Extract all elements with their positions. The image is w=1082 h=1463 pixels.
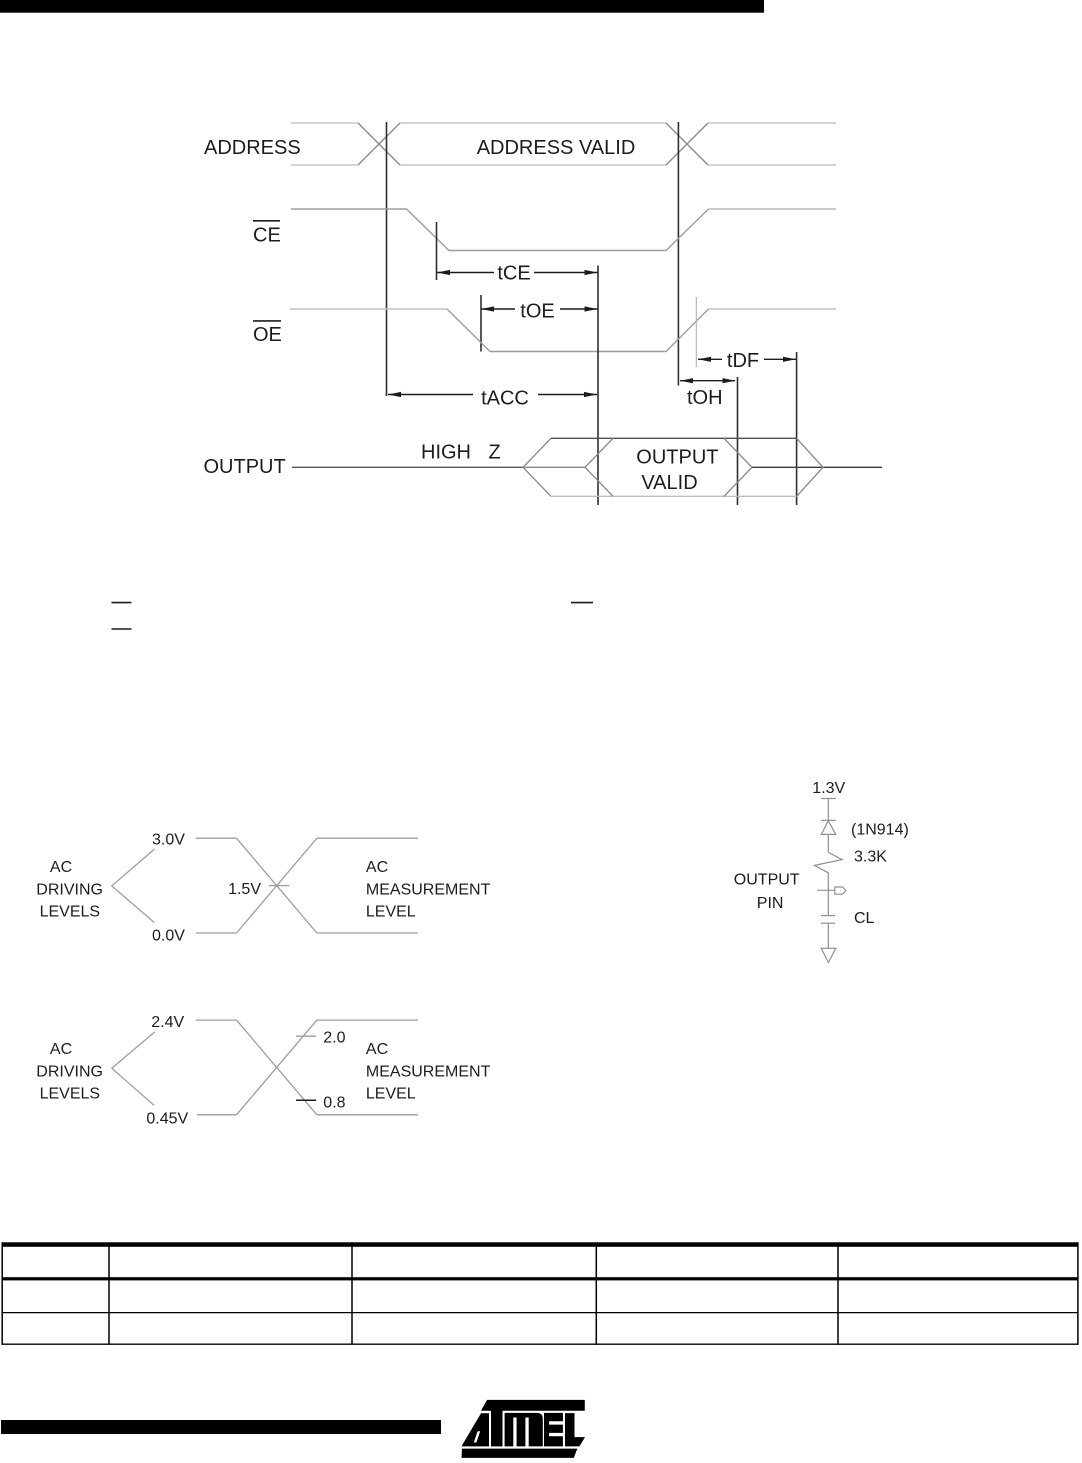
node OUTPUT PIN tag [835, 887, 846, 894]
svg-text:AC: AC [366, 859, 388, 876]
top rule bar [0, 0, 764, 13]
wire OUTPUT bus bottom rail [551, 495, 797, 497]
wire reference vertical at address-valid end [677, 122, 679, 386]
svg-text:MEASUREMENT: MEASUREMENT [366, 1063, 491, 1080]
svg-text:0.45V: 0.45V [146, 1110, 188, 1127]
table top thick border [2, 1242, 1079, 1247]
dimension tOH [680, 378, 736, 383]
table header separator [2, 1277, 1079, 1280]
node 0.8 measurement level tick [296, 1099, 316, 1101]
node 2.0 measurement level tick [296, 1035, 316, 1037]
wire OUTPUT VALID closing [724, 438, 752, 496]
wire tOH right vertical [737, 377, 739, 505]
svg-text:OUTPUT: OUTPUT [734, 872, 800, 889]
resistor R1 3.3K [814, 852, 842, 873]
wire crossing X (diagram 1) [237, 838, 317, 933]
svg-text:LEVELS: LEVELS [40, 1086, 100, 1103]
svg-text:tCE: tCE [497, 263, 530, 285]
wire capacitor to ground [827, 923, 829, 948]
wire OUTPUT bus top rail [551, 437, 797, 439]
AC measurement level label (diagram 1) [366, 859, 491, 921]
logo letter T stem [491, 1404, 503, 1446]
logo letter E [544, 1413, 563, 1447]
svg-text:CL: CL [854, 910, 875, 927]
AC measurement level label (diagram 2) [366, 1041, 491, 1103]
svg-text:ADDRESS: ADDRESS [204, 137, 301, 159]
wire OUTPUT high-Z center line [292, 466, 523, 468]
diode D1 (1N914) [821, 820, 836, 834]
svg-text:tACC: tACC [481, 388, 529, 410]
svg-text:MEASUREMENT: MEASUREMENT [366, 881, 491, 898]
svg-text:0.8: 0.8 [323, 1095, 345, 1112]
logo letter L [565, 1413, 585, 1446]
wire reference vertical at address-valid start [386, 122, 388, 396]
node CE label with overbar [253, 220, 280, 222]
wire AC drive fork (diagram 1) [112, 849, 155, 923]
svg-text:DRIVING: DRIVING [36, 1063, 103, 1080]
wire tCE/tOE/tACC right vertical [597, 266, 599, 506]
AC driving levels label (diagram 1) [36, 859, 103, 921]
supply terminal tick [821, 798, 836, 800]
svg-text:AC: AC [366, 1041, 388, 1058]
svg-text:CE: CE [253, 225, 281, 247]
svg-text:LEVEL: LEVEL [366, 1086, 416, 1103]
wire output rails (diagram 1) [317, 838, 418, 933]
svg-text:tOH: tOH [687, 387, 723, 409]
note overbar CE (note 1) [112, 602, 132, 604]
wire resistor to capacitor [827, 873, 829, 916]
wire ADDRESS bus transition X left [358, 123, 400, 165]
wire tCE left tick [436, 222, 438, 280]
svg-text:OE: OE [253, 324, 282, 346]
wire OUTPUT high-Z tail split [523, 438, 613, 496]
wire CE waveform [291, 209, 709, 251]
svg-text:3.3K: 3.3K [854, 849, 887, 866]
svg-text:ADDRESS VALID: ADDRESS VALID [477, 137, 636, 159]
capacitor CL [821, 916, 835, 924]
wire OUTPUT final closing [797, 438, 823, 496]
note overbar OE (note 2) [112, 628, 132, 630]
wire OUTPUT right center line [752, 466, 882, 468]
logo letter A [461, 1413, 489, 1446]
dimension tCE [437, 270, 598, 275]
wire AC drive fork (diagram 2) [112, 1032, 155, 1106]
table row separator [2, 1312, 1079, 1314]
svg-text:1.5V: 1.5V [228, 881, 261, 898]
svg-text:DRIVING: DRIVING [36, 881, 103, 898]
svg-text:LEVELS: LEVELS [40, 904, 100, 921]
wire OUTPUT bus opening [523, 438, 551, 496]
svg-text:HIGH: HIGH [421, 441, 471, 463]
footer rule bar [1, 1420, 441, 1434]
svg-text:2.0: 2.0 [323, 1030, 345, 1047]
table column lines [2, 1242, 1078, 1345]
svg-text:VALID: VALID [641, 472, 697, 494]
wire ADDRESS bus rails [291, 123, 836, 165]
svg-text:tOE: tOE [520, 301, 554, 323]
wire diode to resistor [827, 834, 829, 852]
wire tOE left tick [480, 295, 482, 352]
svg-text:2.4V: 2.4V [151, 1014, 184, 1031]
svg-text:OUTPUT: OUTPUT [204, 456, 286, 478]
wire OE waveform [290, 308, 447, 310]
svg-text:(1N914): (1N914) [851, 822, 909, 839]
svg-text:LEVEL: LEVEL [366, 904, 416, 921]
svg-text:0.0V: 0.0V [152, 928, 185, 945]
svg-text:1.3V: 1.3V [812, 780, 845, 797]
Atmel logo [461, 1400, 585, 1458]
wire output rails (diagram 2) [317, 1020, 418, 1115]
table bottom border [2, 1343, 1079, 1345]
node OUTPUT PIN tick [817, 889, 835, 891]
svg-text:tDF: tDF [727, 350, 759, 372]
wire tDF left tick [695, 297, 697, 367]
dimension tOE [481, 306, 598, 311]
svg-text:3.0V: 3.0V [152, 832, 185, 849]
wire ADDRESS bus transition X right [666, 123, 708, 165]
logo top bar [481, 1400, 585, 1411]
wire crossing X (diagram 2) [237, 1020, 317, 1115]
node OE label with overbar [253, 320, 281, 322]
svg-text:AC: AC [50, 1041, 72, 1058]
note overbar OE (note 1 right) [571, 602, 593, 604]
logo bottom bar [462, 1449, 578, 1458]
logo letter M [505, 1413, 543, 1447]
svg-text:Z: Z [489, 441, 501, 463]
dimension tACC [388, 392, 597, 397]
svg-text:AC: AC [50, 859, 72, 876]
wire tDF right vertical [796, 352, 798, 505]
ground [821, 948, 836, 962]
wire supply to diode [827, 799, 829, 821]
AC driving levels label (diagram 2) [36, 1041, 103, 1103]
svg-text:OUTPUT: OUTPUT [636, 447, 718, 469]
dimension tDF [698, 357, 796, 362]
svg-text:PIN: PIN [757, 895, 784, 912]
